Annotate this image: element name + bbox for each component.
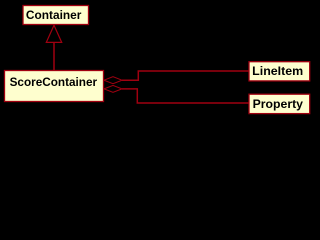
svg-text:LineItem: LineItem — [252, 64, 303, 78]
wire: aggregation edge ScoreContainer to Property — [122, 89, 249, 103]
arrowhead: hollow triangle (generalization) — [46, 25, 61, 42]
svg-text:ScoreContainer: ScoreContainer — [10, 75, 98, 89]
class box Container — [23, 6, 89, 25]
svg-text:Property: Property — [253, 97, 304, 111]
diamond: aggregation at ScoreContainer (LineItem edge) — [104, 77, 122, 84]
wire: inheritance edge ScoreContainer to Container — [53, 43, 55, 71]
svg-text:Container: Container — [26, 8, 82, 22]
wire: aggregation edge ScoreContainer to LineItem — [122, 71, 249, 80]
class box ScoreContainer — [5, 71, 104, 102]
class box LineItem — [249, 62, 310, 81]
diamond: aggregation at ScoreContainer (Property edge) — [104, 85, 122, 92]
class box Property — [249, 94, 310, 113]
